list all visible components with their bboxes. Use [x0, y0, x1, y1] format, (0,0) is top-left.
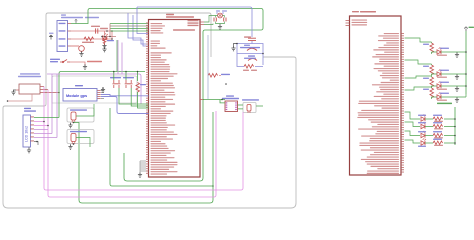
ground under BZ1	[79, 51, 83, 56]
capacitor C3	[224, 18, 226, 22]
LED1 label	[100, 28, 108, 29]
upper ladder cell 4	[405, 87, 432, 90]
GPS1 name	[75, 85, 83, 86]
+5V power symbol	[49, 35, 53, 40]
label Reg chip for IR	[70, 109, 87, 110]
junction node	[106, 30, 108, 32]
lower rail	[454, 107, 456, 145]
S1 label	[50, 59, 60, 60]
R2 value	[243, 70, 249, 71]
svg-text:Module gps: Module gps	[66, 94, 87, 98]
capacitor C2	[214, 18, 216, 22]
S2 label	[110, 77, 121, 78]
wire violet risers	[52, 74, 57, 138]
ground under crystal	[218, 24, 222, 29]
VCC 5V label lower group	[437, 103, 452, 105]
U2 name label	[352, 11, 359, 12]
GPS1 pins	[97, 90, 100, 100]
wire S1 to ground	[70, 62, 85, 66]
lower row 4	[405, 140, 421, 143]
wires to crystal	[204, 16, 225, 25]
label Reg chip for IR	[70, 131, 87, 132]
U2 left pin stubs	[346, 21, 350, 26]
resistor R2	[244, 65, 254, 69]
wire green bus mid	[59, 72, 145, 118]
long green verticals from U4 area	[207, 35, 209, 99]
capacitor C1	[96, 28, 98, 33]
VCC tap symbol on sensor net	[75, 19, 78, 23]
ground under LCD1	[27, 148, 31, 153]
R3 label	[140, 84, 146, 85]
LCD1 pin wires	[34, 117, 59, 119]
long pink loops from bottom	[44, 87, 243, 191]
microcontroller IC1 (body)	[149, 20, 201, 178]
sheet group frame (stepped grey outline)	[3, 13, 296, 208]
IR1 symbol	[71, 112, 76, 120]
mic loop wiring	[237, 41, 263, 65]
IR receiver box 1	[67, 108, 94, 122]
buzzer BZ1	[79, 46, 85, 52]
ground under LED1	[102, 43, 106, 48]
R4 label	[221, 74, 230, 75]
U3 label	[20, 73, 40, 74]
wire gps RX (blue)	[101, 97, 149, 114]
label Reg chip for TV	[242, 99, 259, 100]
IR receiver box 2	[67, 130, 94, 144]
IC1 name label	[166, 14, 174, 16]
ground left of mic	[231, 46, 235, 51]
U2 right pin-name text block	[352, 20, 400, 174]
GPS1 pin wires	[101, 91, 104, 99]
SP1 label	[248, 55, 255, 56]
ground at gps	[102, 87, 104, 89]
IC1 left pin comb	[146, 23, 148, 175]
U3 left pin + ground	[16, 89, 19, 91]
upper ladder cell 2	[405, 60, 432, 65]
C1 label	[91, 26, 100, 27]
push button S3	[125, 80, 133, 88]
microphone MIC1	[247, 48, 257, 50]
wire U3 bottom (red)	[8, 94, 33, 101]
module group frame around gps/buttons	[52, 76, 137, 103]
LED1	[103, 33, 108, 40]
resistor R3	[136, 83, 140, 93]
wire U4 to IR box	[238, 105, 264, 109]
ground IR1	[68, 123, 72, 128]
IC1 right top pin labels (XTAL)	[188, 20, 199, 27]
S3 label	[123, 77, 134, 78]
wire gps TX (blue)	[101, 95, 149, 96]
capacitor C4 above mic	[244, 36, 251, 37]
push button S2	[113, 80, 121, 88]
IC1 inner function label	[173, 29, 195, 31]
VCC label	[469, 27, 474, 28]
gps module GPS1	[63, 89, 97, 102]
ground at IC1 spare pins	[138, 172, 142, 177]
wire bundle into IC1 upper-left pins	[105, 24, 149, 37]
resistor R1 220ohm	[84, 37, 94, 41]
wire net4 (red)	[71, 45, 79, 47]
U4 label	[226, 95, 234, 96]
U2 right pin comb	[402, 33, 404, 173]
switch S1 tip sensor	[60, 60, 70, 63]
connector LCD1 16x2	[23, 115, 31, 147]
IC1 left pin-name text block	[151, 23, 178, 175]
JP1 pin labels	[59, 23, 66, 47]
ground	[83, 64, 87, 69]
JP1 name label	[61, 14, 66, 15]
R1 value label	[82, 42, 94, 43]
svg-text:LCD 16x2: LCD 16x2	[25, 126, 29, 142]
VCC rail	[465, 31, 467, 94]
IC1 bottom-left spare pin wires	[140, 161, 146, 172]
upper ladder cell 1: wire, resistor, LED, ground	[405, 38, 432, 43]
wire IR1 out	[74, 104, 95, 123]
VCC symbol top right	[464, 27, 468, 31]
connector JP1 sensor module	[57, 21, 68, 52]
wire IC1 to U4	[203, 100, 225, 103]
net name label (red)	[87, 61, 102, 63]
JP1 pin stubs	[68, 24, 72, 47]
wire blue top loop	[137, 7, 149, 34]
wire sensor VCC (green, up and across top)	[71, 9, 263, 182]
IR receiver symbol	[247, 105, 251, 112]
lower row 3	[405, 131, 421, 136]
IR2 symbol	[71, 134, 76, 142]
ground IR2	[68, 144, 72, 149]
wire net2 (red)	[71, 31, 112, 39]
microcontroller U2 (right)	[350, 16, 402, 175]
upper ladder cell 3	[405, 76, 432, 78]
button wires	[114, 72, 138, 82]
speaker SP1	[248, 59, 257, 61]
regulator U3 LM2596 EMI suppressor	[19, 84, 40, 94]
LCD1 name labels	[24, 108, 31, 109]
IR receiver box for TV	[243, 103, 256, 113]
wire violet bus mid	[47, 74, 141, 104]
Q1 label	[216, 10, 220, 11]
MIC1 label	[244, 45, 250, 46]
resistor R4 near IC right	[208, 74, 218, 78]
U3 right pin wires	[40, 87, 59, 93]
wire IR2 out	[76, 138, 90, 148]
lower row 1: LED + resistor	[405, 112, 421, 119]
LCD1 pin comb	[30, 117, 34, 144]
wire violet risers to bus	[118, 40, 122, 74]
crystal Q1	[218, 13, 223, 18]
IC1 right pin stubs (xtal+periph)	[200, 22, 204, 100]
wire blue riser to IC	[128, 13, 149, 46]
+5V label	[49, 33, 54, 34]
lower row 2	[405, 122, 421, 127]
IC U4 driver	[225, 101, 238, 112]
